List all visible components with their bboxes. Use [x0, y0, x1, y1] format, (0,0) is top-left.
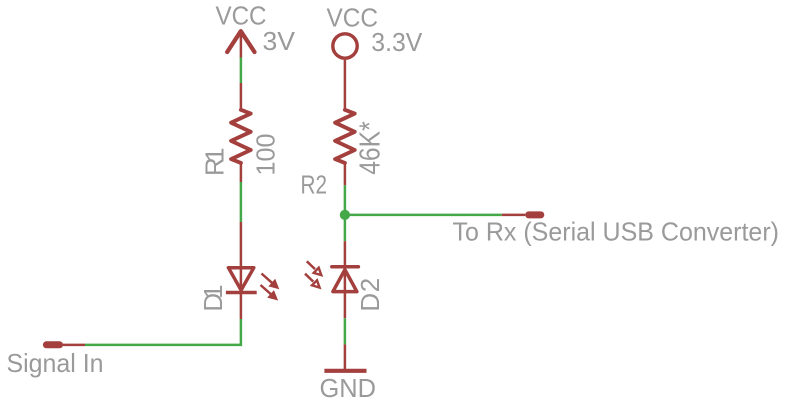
svg-text:100: 100: [251, 134, 281, 176]
wire net R1 to D1: [240, 182, 243, 222]
wire net R2 to junction: [344, 185, 347, 215]
svg-text:VCC: VCC: [216, 1, 267, 31]
supply symbol VCC (circle): [333, 34, 357, 58]
D2 incoming arrow 2: [305, 274, 320, 288]
terminal pad (Signal In): [43, 341, 63, 348]
svg-text:Signal In: Signal In: [7, 348, 104, 378]
svg-text:GND: GND: [320, 373, 377, 403]
svg-text:3.3V: 3.3V: [371, 27, 423, 57]
resistor R1: [231, 83, 251, 182]
terminal pad (To Rx): [525, 211, 544, 218]
ground: [324, 344, 366, 370]
svg-text:1: 1: [198, 284, 228, 298]
wire net D1 to Signal In: [85, 319, 241, 345]
svg-text:D: D: [355, 293, 385, 312]
D2 incoming arrow 1: [307, 261, 322, 275]
pin wire to right terminal: [502, 214, 526, 217]
pin wire to terminal: [63, 344, 85, 347]
wire net junction to D2: [344, 215, 347, 241]
D1 emission arrow 1: [262, 274, 279, 289]
svg-text:VCC: VCC: [327, 3, 379, 33]
wire net junction to right: [345, 214, 502, 217]
svg-text:R2: R2: [301, 170, 328, 200]
wire net D2 to GND: [344, 318, 347, 344]
supply symbol VCC (arrow): [227, 31, 254, 57]
svg-text:1: 1: [200, 147, 230, 161]
svg-text:3V: 3V: [263, 26, 296, 56]
svg-text:46K*: 46K*: [355, 121, 387, 175]
wire net from VCC to R1: [240, 58, 243, 84]
resistor R2: [335, 60, 355, 186]
D1 emission arrow 2: [261, 285, 278, 300]
LED D2: [332, 241, 359, 318]
svg-text:To Rx (Serial USB Converter): To Rx (Serial USB Converter): [453, 217, 780, 247]
LED D1: [226, 222, 257, 319]
svg-text:2: 2: [355, 278, 385, 292]
junction dot: [340, 210, 350, 220]
